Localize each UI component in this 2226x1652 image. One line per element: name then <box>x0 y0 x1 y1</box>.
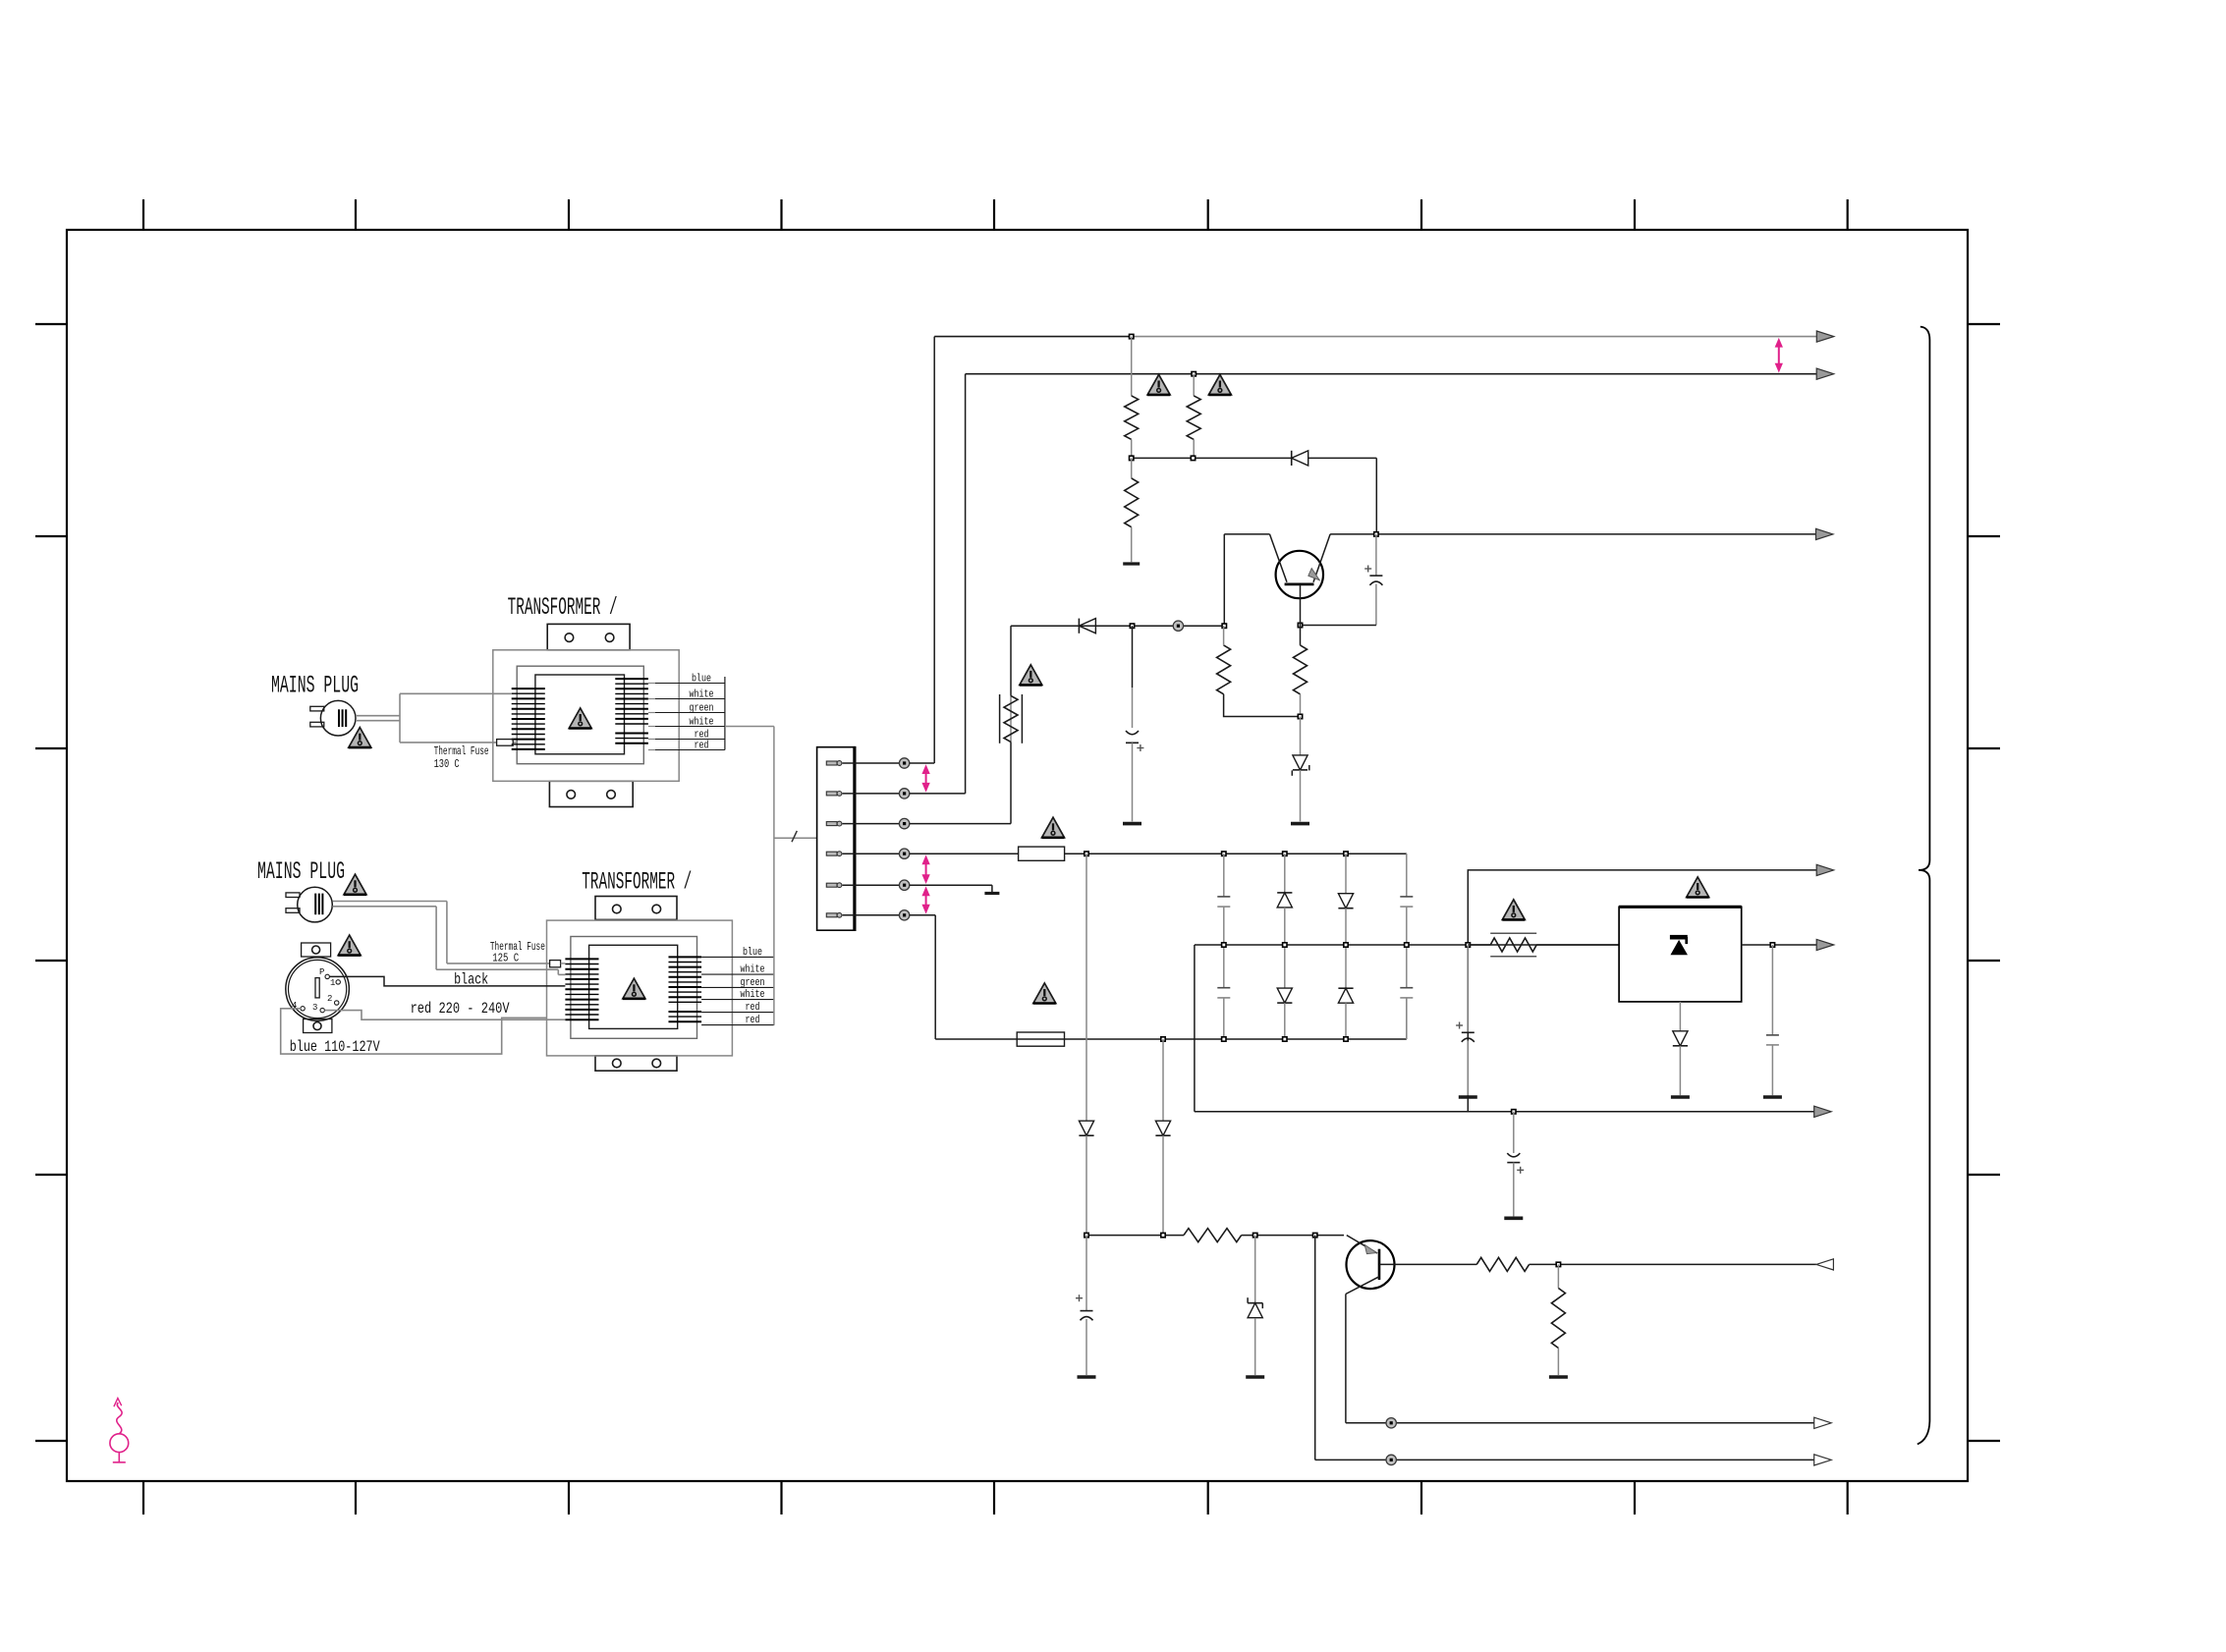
label blue 110-127V <box>290 1038 380 1056</box>
label MAINS PLUG 1 <box>271 672 359 700</box>
connector CN1 body and pins <box>817 746 855 931</box>
ground below C7 <box>1078 1375 1096 1379</box>
resistor R7 (base) <box>1294 584 1308 717</box>
ground below R10 <box>1549 1375 1568 1379</box>
junction bottom bus c3 <box>1344 1037 1348 1041</box>
junction bottom bus c2 <box>1283 1037 1287 1041</box>
warning triangle at plug P2 <box>344 874 366 895</box>
thermal fuse F2 125C <box>550 961 561 967</box>
diode D6 <box>1155 1039 1170 1236</box>
warning triangle near R1 <box>1147 374 1170 395</box>
wire CN1 row5 to ground <box>910 885 992 892</box>
bridge capacitor Cb1 <box>1217 854 1230 945</box>
resistor R6 <box>1217 626 1301 716</box>
diode D1 <box>1292 451 1308 466</box>
ground below C5 <box>1504 1217 1523 1221</box>
svg-text:white: white <box>690 717 714 729</box>
wire R9 to input arrow <box>1530 1263 1816 1265</box>
capacitor C6 <box>1766 945 1779 1095</box>
svg-text:130 C: 130 C <box>434 757 460 771</box>
svg-text:white: white <box>690 689 714 701</box>
wire mid bus to FR2 <box>1468 944 1490 946</box>
ground below DZ2 <box>1246 1375 1264 1379</box>
svg-text:TRANSFORMER /: TRANSFORMER / <box>582 868 692 897</box>
resistor R1 <box>1125 337 1139 456</box>
junction top bus c1 <box>1222 852 1226 855</box>
junction top bus c2 <box>1283 852 1287 855</box>
label MAINS PLUG 2 <box>257 857 345 886</box>
wire FR2 to IC1 <box>1536 944 1619 946</box>
output arrow row D <box>1816 864 1834 875</box>
svg-text:TRANSFORMER /: TRANSFORMER / <box>508 593 618 622</box>
diode D4 <box>1079 619 1095 633</box>
output arrow row F <box>1814 1417 1832 1428</box>
resistor R9 <box>1476 1257 1529 1271</box>
junction top bus c3 <box>1344 852 1348 855</box>
junction D6 node <box>1161 1233 1165 1237</box>
wire blue 110-127V (selector 4 loop) <box>281 1009 547 1054</box>
bridge capacitor Cb2 <box>1217 945 1230 1039</box>
wire D1 to emitter row <box>1308 458 1377 534</box>
wire red 220-240V (selector 3 to T2 primary) <box>324 1011 565 1020</box>
svg-text:green: green <box>690 703 714 715</box>
bridge diode Db1 <box>1277 854 1292 945</box>
wire black (selector P to T2 primary) <box>329 976 565 986</box>
fusible resistor FR2 <box>1490 933 1536 956</box>
magenta adjustment symbol <box>110 1399 129 1462</box>
test point on 637 line <box>1173 621 1183 631</box>
magenta arrow CN1 rows1-2 <box>922 766 929 792</box>
bridge diode Db3 <box>1338 854 1353 945</box>
wire row B <box>966 373 1817 375</box>
warning triangle near R2 <box>1208 374 1231 395</box>
svg-text:3: 3 <box>312 1003 317 1013</box>
T2 secondary wire labels (blue/white/green/white/red/red) <box>701 947 774 1026</box>
junction top bus / D5 branch <box>1085 852 1088 855</box>
transformer T2 <box>547 897 733 1072</box>
wire Q2 collector <box>1379 1263 1476 1265</box>
junction row A <box>1130 334 1134 338</box>
output arrow row C <box>1816 528 1834 539</box>
wire IC1 output <box>1742 944 1816 946</box>
output arrow row E <box>1814 1106 1832 1117</box>
bridge diode Db4 <box>1338 945 1353 1039</box>
drawing frame with zone tick marks <box>35 199 2000 1514</box>
junction D5 node <box>1085 1233 1088 1237</box>
junction R8 / row G riser <box>1313 1233 1317 1237</box>
top bus corner down <box>1406 854 1408 897</box>
thermal fuse F1 130C <box>497 740 514 746</box>
svg-text:black: black <box>454 971 488 989</box>
label black <box>454 971 488 989</box>
label TRANSFORMER 2 <box>582 868 692 897</box>
svg-text:2: 2 <box>327 994 332 1004</box>
junction row E / C5 <box>1512 1110 1516 1114</box>
wire row G <box>1315 1236 1816 1460</box>
svg-text:blue: blue <box>743 947 762 959</box>
output arrow row B <box>1816 368 1834 379</box>
magenta arrow CN1 rows5-6 <box>922 888 929 913</box>
junction IC1 output <box>1770 943 1774 947</box>
ground below C4 <box>1459 1095 1477 1099</box>
label Thermal Fuse 125 C <box>490 940 545 965</box>
warning triangle at plug P1 <box>349 728 371 748</box>
svg-text:Thermal Fuse: Thermal Fuse <box>434 744 489 758</box>
svg-text:red: red <box>746 1015 760 1026</box>
wire plug P2 to thermal fuse and T2 primary <box>332 902 565 975</box>
transformer T1 <box>493 624 679 806</box>
svg-text:MAINS PLUG: MAINS PLUG <box>257 857 345 886</box>
junction mid c1 <box>1222 943 1226 947</box>
output arrow IC1 <box>1816 939 1834 950</box>
zener diode DZ2 <box>1248 1236 1262 1375</box>
svg-text:red 220 - 240V: red 220 - 240V <box>411 1000 510 1018</box>
regulator IC1 <box>1619 907 1742 1002</box>
ground below C6 <box>1763 1095 1782 1099</box>
svg-text:white: white <box>741 964 765 976</box>
capacitor C2 <box>1126 626 1143 821</box>
wire row A (top output) <box>934 336 1816 338</box>
warning triangle inside T2 <box>623 978 645 999</box>
junction 637/C2 <box>1130 624 1134 628</box>
output group brace <box>1918 327 1930 1445</box>
fuse FS2 <box>1017 1032 1064 1046</box>
wire row C right (emitter to output) <box>1330 533 1816 535</box>
resistor R3 <box>1125 458 1139 562</box>
wire bottom bus <box>935 1038 1407 1040</box>
junction mid c2 <box>1283 943 1287 947</box>
wire to connector CN1 with slash mark <box>774 831 817 842</box>
test point bullseyes at CN1 <box>899 758 909 920</box>
capacitor C5 <box>1507 1112 1524 1217</box>
wire bottom bus corner up <box>1406 998 1408 1039</box>
capacitor C7 <box>1076 1236 1093 1375</box>
ground below DZ1 <box>1291 822 1309 826</box>
warning triangle above fuse FS1 <box>1042 817 1065 838</box>
capacitor C3 (emitter) <box>1364 534 1382 626</box>
svg-text:MAINS PLUG: MAINS PLUG <box>271 672 359 700</box>
test point row F <box>1386 1418 1396 1428</box>
junction bottom bus c1 <box>1222 1037 1226 1041</box>
ground below C2 <box>1123 822 1141 826</box>
wire fuse FS1 to top bus <box>1065 853 1407 854</box>
input arrow row R9 <box>1816 1259 1834 1270</box>
wire Q1 collector down <box>1223 534 1225 624</box>
wire row D <box>1468 870 1816 1112</box>
wire C3 bottom to base node <box>1301 625 1376 627</box>
wire Q2 emitter to row F <box>1346 1294 1816 1423</box>
output arrow row G <box>1814 1455 1832 1465</box>
wire CN1 row4 to fuse <box>910 853 1019 854</box>
diode D5 <box>1079 854 1093 1235</box>
junction Q1 base node <box>1298 623 1302 627</box>
resistor R2 <box>1187 374 1200 456</box>
wire 637 line <box>1011 625 1224 627</box>
junction R2 row466 <box>1191 456 1195 460</box>
wire CN1 row6 down <box>910 915 935 1039</box>
wire row C left (collector top) <box>1224 533 1269 535</box>
wire node row 1258 <box>1086 1235 1184 1237</box>
junction mid c3 <box>1344 943 1348 947</box>
fuse FS1 <box>1019 847 1065 860</box>
svg-text:P: P <box>319 967 324 977</box>
capacitor C4 <box>1456 945 1475 1095</box>
ground at CN1 row5 <box>984 892 999 895</box>
diode D7 <box>1673 1002 1688 1095</box>
test point row G <box>1386 1455 1396 1464</box>
warning triangle near FR1 <box>1020 665 1042 686</box>
warning triangle inside T1 <box>569 708 591 729</box>
bridge diode Db2 <box>1277 945 1292 1039</box>
mains plug P1 <box>310 700 356 736</box>
bridge capacitor Cb3 <box>1400 897 1413 945</box>
svg-text:blue: blue <box>692 674 711 686</box>
svg-text:white: white <box>741 989 765 1001</box>
wire CN1 row3 right <box>910 742 1011 823</box>
label Thermal Fuse 130 C <box>434 744 489 771</box>
label TRANSFORMER 1 <box>508 593 618 622</box>
wire link T1 white / T2 labels vertical bus <box>725 727 774 1025</box>
wire mid bus <box>1195 944 1619 946</box>
T1 secondary wire labels (blue/white/green/white/red/red) <box>648 674 725 752</box>
transistor Q2 <box>1346 1236 1395 1294</box>
voltage selector switch S1 <box>286 943 350 1033</box>
warning triangle at selector <box>338 935 361 956</box>
svg-text:red: red <box>746 1002 760 1014</box>
zener diode DZ1 <box>1292 717 1309 822</box>
mains plug P2 <box>286 887 332 922</box>
junction row B <box>1192 372 1196 376</box>
svg-text:1: 1 <box>330 978 335 988</box>
magenta arrow rows A-B <box>1775 339 1782 371</box>
junction mid c4 <box>1405 943 1409 947</box>
junction R9 / R10 <box>1556 1262 1560 1266</box>
wire row E <box>1195 1111 1816 1113</box>
junction row D / FR2 <box>1466 943 1470 947</box>
junction R1 row466 <box>1130 456 1134 460</box>
junction emitter/capacitor C3 <box>1374 532 1378 536</box>
junction base-divider <box>1298 714 1302 718</box>
warning triangle above FR2 <box>1502 900 1525 920</box>
warning triangle above IC1 <box>1687 877 1709 898</box>
wire CN1 row2 up <box>910 374 966 794</box>
magenta arrow CN1 rows4-5 <box>922 856 929 883</box>
wire plug P1 to T1 primary <box>356 693 517 743</box>
junction bottom bus / D6 <box>1161 1037 1165 1041</box>
label red 220 - 240V <box>411 1000 510 1018</box>
svg-text:red: red <box>695 741 709 752</box>
svg-text:125 C: 125 C <box>492 952 519 965</box>
wire node row 466 <box>1132 457 1292 459</box>
wire fuse F2 to T2 primary <box>561 963 566 964</box>
resistor R8 <box>1184 1229 1344 1242</box>
output arrow row A <box>1816 331 1834 342</box>
svg-text:green: green <box>741 977 765 989</box>
resistor R10 <box>1551 1264 1565 1375</box>
ground below D7 <box>1671 1095 1690 1099</box>
junction 637/collector <box>1222 624 1226 628</box>
bridge capacitor Cb4 <box>1400 945 1413 1039</box>
svg-text:blue 110-127V: blue 110-127V <box>290 1038 380 1056</box>
fusible resistor FR1 <box>1000 626 1023 743</box>
wire mid bus to row E riser <box>1194 945 1196 1112</box>
junction R8 / DZ2 <box>1253 1233 1257 1237</box>
wire CN1 row1 up <box>910 337 934 763</box>
transistor Q1 <box>1270 534 1331 598</box>
ground below R3 <box>1123 562 1140 565</box>
wires CN1 pins to test points <box>843 763 900 915</box>
warning triangle above fuse FS2 <box>1033 983 1056 1004</box>
